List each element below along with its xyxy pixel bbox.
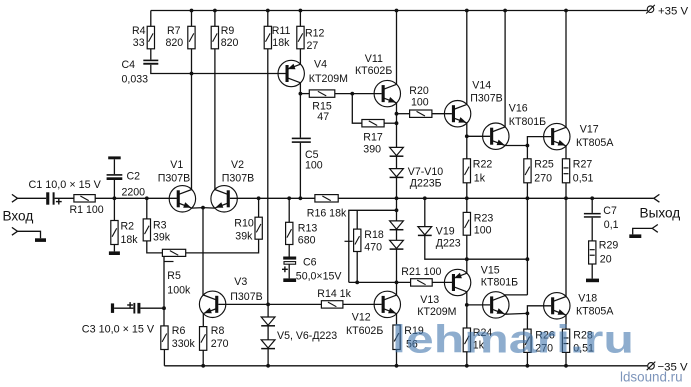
node R24 rail: [465, 364, 469, 368]
resistor R6: [161, 326, 168, 350]
resistor R2: [111, 221, 118, 245]
wire V1 emitter: [192, 207, 203, 210]
svg-text:R13: R13: [298, 223, 318, 235]
wire V7-V8: [396, 156, 398, 168]
capacitor C3 plate2: [137, 303, 140, 314]
wire V4 node to C5: [299, 94, 301, 138]
wire midline to R10: [258, 198, 260, 217]
transistor V4 КТ209М: [278, 60, 304, 86]
wire R6 to rail: [163, 350, 165, 366]
svg-text:V14: V14: [472, 79, 491, 91]
wire V16 emitter: [505, 145, 527, 147]
wire C3 to wiper line: [140, 307, 164, 309]
wire R26 to rail: [526, 352, 528, 365]
wire V3 emitter to R8: [202, 314, 204, 327]
transistor V18 КТ805А: [544, 293, 570, 319]
capacitor C4 plate2: [143, 63, 158, 65]
wire node to R3: [146, 198, 148, 219]
diode V19: [418, 227, 432, 236]
capacitor C1 plate-: [46, 192, 49, 204]
node R18 chain junction: [395, 208, 399, 212]
wire node to R24: [466, 305, 468, 328]
svg-text:R2: R2: [121, 221, 135, 233]
wire rail to R9: [214, 11, 216, 27]
transistor V16 КТ801Б: [483, 123, 509, 149]
transistor V15 КТ801Б: [483, 292, 509, 318]
node R25 node: [526, 196, 530, 200]
svg-text:R16 18k: R16 18k: [307, 208, 347, 220]
wire input shield: [18, 231, 41, 238]
svg-text:V13: V13: [420, 294, 439, 306]
svg-text:470: 470: [364, 241, 382, 253]
node chain bottom: [395, 281, 399, 285]
node V16 emitter node: [526, 144, 530, 148]
svg-text:820: 820: [221, 37, 239, 49]
capacitor C3 terminal bar: [111, 303, 114, 313]
svg-text:330k: 330k: [172, 338, 196, 350]
svg-text:V16: V16: [509, 103, 528, 115]
node C5 bottom: [299, 196, 303, 200]
transistor V1 П307В: [169, 186, 195, 212]
node rail R7: [190, 9, 194, 13]
wire rail to R11: [267, 11, 269, 27]
svg-text:КТ602Б: КТ602Б: [355, 65, 392, 77]
node rail V17: [564, 9, 568, 13]
ground R29 ground: [586, 279, 599, 283]
capacitor C7 plate1: [584, 213, 601, 215]
svg-text:50,0×15V: 50,0×15V: [296, 271, 343, 283]
node V19 top: [423, 196, 427, 200]
transistor V14 П307В: [444, 101, 470, 127]
svg-text:V3: V3: [234, 276, 247, 288]
svg-text:390: 390: [363, 144, 381, 156]
node rail R11: [266, 9, 270, 13]
svg-text:100: 100: [411, 97, 429, 109]
svg-text:39k: 39k: [235, 231, 253, 243]
node V13 emitter node: [465, 257, 469, 261]
connector terminal output hot: [654, 194, 660, 202]
wire V18 emitter to R28: [565, 315, 567, 329]
node R2 junction: [113, 196, 117, 200]
resistor R22: [463, 159, 470, 183]
svg-text:680: 680: [298, 235, 316, 247]
svg-text:П307В: П307В: [230, 291, 262, 303]
svg-text:R25: R25: [534, 159, 554, 171]
node R17 right: [395, 121, 399, 125]
resistor R25: [524, 159, 531, 183]
resistor R20: [410, 110, 432, 117]
svg-text:270: 270: [211, 338, 229, 350]
wire R4 to C4: [150, 49, 152, 60]
node C7 branch: [590, 196, 594, 200]
diode V6: [261, 340, 275, 349]
node emitters: [201, 206, 205, 210]
wire output to C7: [591, 198, 593, 213]
wire R14 to V12 base: [343, 303, 382, 305]
svg-text:V18: V18: [578, 293, 597, 305]
resistor R15: [309, 90, 335, 97]
wire node to R20: [397, 113, 410, 115]
wire R1 to V1 base: [95, 197, 177, 199]
svg-text:R3: R3: [153, 219, 167, 231]
wire C1 to R1: [55, 197, 74, 199]
wire V2 emitter: [203, 207, 215, 210]
svg-text:V15: V15: [481, 264, 500, 276]
svg-text:КТ209М: КТ209М: [309, 73, 348, 85]
wire node to R2: [113, 198, 115, 220]
wire node to R25: [526, 146, 528, 159]
svg-text:20: 20: [600, 254, 612, 266]
svg-text:ldsound.ru: ldsound.ru: [620, 370, 683, 385]
terminal +35V: [646, 5, 655, 14]
svg-text:100: 100: [305, 160, 323, 172]
wire node to R26: [526, 313, 528, 329]
node V6 rail: [266, 364, 270, 368]
potentiometer R5 wiper tick: [164, 261, 174, 263]
svg-text:С1 10,0 × 15 V: С1 10,0 × 15 V: [29, 179, 102, 191]
wire R17 left leg: [352, 94, 362, 124]
wire node to V15 base: [467, 304, 490, 306]
transistor V2 П307В: [211, 186, 237, 212]
svg-text:R14 1k: R14 1k: [317, 288, 351, 300]
wire R27 to midline: [565, 183, 567, 199]
resistor R11: [264, 26, 271, 49]
resistor R28: [562, 329, 569, 352]
resistor R3: [143, 219, 150, 241]
resistor R17: [362, 120, 384, 127]
svg-text:R20: R20: [409, 85, 429, 97]
svg-text:V1: V1: [170, 159, 183, 171]
capacitor C2 plate2: [107, 177, 123, 180]
wire output node down V15 collector line: [526, 198, 528, 295]
svg-text:V19: V19: [436, 226, 455, 238]
wire R11 to V3 base node: [267, 49, 269, 305]
svg-text:lehmari.ru: lehmari.ru: [392, 319, 634, 362]
node C3 junction: [162, 306, 166, 310]
wire V19 to V13 node: [425, 235, 467, 259]
svg-text:V4: V4: [314, 58, 327, 70]
ground output shield ground: [629, 234, 641, 238]
resistor R7: [188, 26, 195, 49]
wire R29 to ground: [591, 264, 593, 279]
transistor V13 КТ209М: [444, 269, 470, 295]
transistor V3 П307В: [199, 291, 225, 317]
node V14 emitter node: [465, 134, 469, 138]
svg-text:R9: R9: [221, 25, 235, 37]
svg-text:П307В: П307В: [222, 172, 254, 184]
diode V9: [390, 221, 404, 230]
svg-text:Выход: Выход: [640, 206, 681, 221]
wire R25 to midline: [526, 183, 528, 199]
node R28 rail: [564, 364, 568, 368]
node V15 emitter node: [526, 312, 530, 316]
svg-text:0,1: 0,1: [604, 219, 619, 231]
wire R2 to ground: [113, 245, 115, 252]
ground input shield ground: [35, 238, 46, 242]
wire R16 to output: [338, 197, 654, 199]
wire R22 to midline: [466, 183, 468, 199]
svg-text:27: 27: [307, 40, 319, 52]
plus sign C1 polarity: [56, 199, 62, 205]
wire V13 collector down: [466, 292, 468, 305]
wire R15 to V11 base: [335, 93, 382, 95]
wire -35V bottom rail: [164, 365, 647, 367]
wire node to R15: [300, 93, 309, 95]
resistor R9: [211, 26, 218, 49]
capacitor C2 terminal bar: [108, 156, 121, 159]
ground C6 ground: [283, 278, 296, 282]
capacitor C1 plate+: [53, 192, 55, 204]
resistor R18: [354, 229, 361, 251]
svg-text:V12: V12: [352, 312, 371, 324]
wire V12 emitter to R19: [396, 314, 398, 325]
wire C3 terminal: [114, 307, 133, 309]
connector terminal output shield: [652, 225, 658, 233]
svg-text:C6: C6: [303, 257, 317, 269]
resistor R16: [315, 195, 338, 202]
node V13 line T: [526, 257, 530, 261]
node V3 base node: [266, 303, 270, 307]
node R10 top: [257, 196, 261, 200]
resistor R8: [200, 327, 207, 351]
svg-text:100: 100: [474, 225, 492, 237]
wire R9 to V2 collector: [214, 49, 216, 190]
svg-text:R7: R7: [167, 25, 181, 37]
wire C2 terminal to plates: [113, 159, 115, 174]
wire node to R22: [466, 136, 468, 159]
svg-text:C7: C7: [603, 205, 617, 217]
wire output shield: [633, 228, 653, 234]
node rail R12: [299, 9, 303, 13]
capacitor C6 plate-: [284, 262, 296, 265]
terminal -35V: [647, 362, 656, 371]
wire V15 emitter: [505, 312, 527, 315]
node rail V11: [395, 9, 399, 13]
wire C2 to node: [113, 180, 115, 198]
resistor R26: [524, 329, 531, 352]
wire V14 collector to rail: [466, 11, 468, 105]
svg-text:П307В: П307В: [470, 93, 502, 105]
plus sign C6 polarity: [282, 266, 288, 272]
svg-text:КТ602Б: КТ602Б: [346, 325, 383, 337]
wire V17 collector to rail: [565, 11, 567, 128]
wire rail to R7: [191, 11, 193, 27]
svg-text:КТ801Б: КТ801Б: [509, 116, 546, 128]
wire R21 to V13 base: [432, 281, 452, 283]
wire R20 to V14 base: [432, 113, 452, 115]
svg-text:Д223Б: Д223Б: [410, 178, 442, 190]
wire V3 base: [218, 303, 268, 305]
wire midline to R13: [288, 198, 290, 222]
wire C6 to ground: [288, 264, 290, 278]
capacitor C7 plate2: [584, 216, 601, 218]
svg-text:R5: R5: [167, 270, 181, 282]
svg-text:0,51: 0,51: [573, 173, 594, 185]
svg-text:П307В: П307В: [158, 172, 190, 184]
wire V2 base to R16: [230, 197, 315, 199]
node R3 junction: [145, 196, 149, 200]
svg-text:18k: 18k: [272, 37, 290, 49]
resistor R13: [286, 222, 293, 244]
svg-text:R11: R11: [272, 25, 291, 37]
wire R8 to rail: [202, 350, 204, 366]
node rail R9: [213, 9, 217, 13]
capacitor C4 plate1: [143, 60, 158, 62]
ground R2 ground: [109, 251, 120, 255]
wire R3 to R5 left: [147, 241, 163, 253]
svg-text:КТ801Б: КТ801Б: [481, 276, 518, 288]
wire V12 collector: [396, 282, 398, 295]
svg-text:1k: 1k: [474, 173, 486, 185]
svg-text:R8: R8: [211, 325, 225, 337]
svg-text:V5, V6-Д223: V5, V6-Д223: [277, 330, 337, 342]
wire R28 to rail: [565, 352, 567, 365]
svg-text:+35 V: +35 V: [658, 5, 688, 17]
wire base node to V5: [267, 304, 269, 317]
wire C7 to R29: [591, 218, 593, 241]
wire V10 to lower node: [396, 249, 398, 282]
wire V13 node to V15 collector line: [467, 258, 528, 260]
resistor R12: [297, 26, 304, 49]
resistor R14: [321, 301, 343, 308]
svg-text:R23: R23: [474, 213, 494, 225]
resistor R4: [147, 26, 154, 49]
svg-text:КТ209М: КТ209М: [417, 306, 456, 318]
svg-text:R4: R4: [132, 25, 146, 37]
svg-text:КТ805А: КТ805А: [576, 306, 614, 318]
wire V17 emitter to R27: [565, 146, 567, 159]
svg-text:R22: R22: [473, 159, 493, 171]
wire V14 emitter down: [466, 123, 468, 136]
svg-text:R21 100: R21 100: [401, 266, 441, 278]
wire node to V16 base: [467, 135, 490, 137]
wire V16 collector to rail: [504, 11, 506, 127]
wire V8 to midline: [396, 177, 398, 198]
node chain midline: [395, 196, 399, 200]
wire +35V top rail: [151, 10, 647, 12]
transistor V17 КТ805А: [544, 123, 570, 149]
plus sign C3 polarity: [127, 302, 133, 308]
node V4 collector/R15/C5: [299, 92, 303, 96]
wire R17 to emitter line: [384, 122, 396, 124]
wire R13 to C6: [288, 245, 290, 257]
connector terminal input hot: [12, 194, 18, 202]
transistor V11 КТ602Б: [374, 80, 400, 106]
svg-text:КТ805А: КТ805А: [576, 137, 614, 149]
wire lower bias node: [349, 281, 411, 283]
diode V10: [390, 240, 404, 249]
connector terminal input shield: [12, 227, 18, 235]
node R20 branch: [395, 112, 399, 116]
diode V5: [261, 317, 275, 326]
resistor R29: [589, 241, 596, 264]
wire V15 collector: [505, 294, 528, 296]
node V13 collector node: [465, 303, 469, 307]
svg-text:820: 820: [166, 37, 184, 49]
svg-text:R6: R6: [172, 325, 186, 337]
wire R18 up: [356, 210, 358, 229]
wire V11 collector to rail: [396, 11, 398, 85]
wire R5 wiper down: [163, 257, 165, 326]
wire midline to R23: [466, 198, 468, 212]
wire V18 collector to output: [565, 198, 567, 296]
svg-text:0,033: 0,033: [122, 73, 149, 85]
wire C4 to V4 base: [151, 65, 287, 74]
wire rail to R4: [150, 11, 152, 27]
resistor R23: [463, 212, 470, 235]
capacitor C2 plate1: [107, 174, 123, 176]
wire base node to R14: [268, 303, 321, 305]
wire R7 to V1 collector: [191, 49, 193, 190]
node R17 branch: [350, 92, 354, 96]
node R18 bottom: [355, 281, 359, 285]
node R26 rail: [526, 364, 530, 368]
wire rail to R12: [299, 11, 301, 27]
node rail V16: [503, 9, 507, 13]
svg-text:R27: R27: [573, 159, 593, 171]
svg-text:Д223: Д223: [436, 238, 461, 250]
node C4/V1 collector junction: [190, 72, 194, 76]
svg-text:18k: 18k: [121, 234, 139, 246]
resistor R21: [411, 279, 433, 286]
wire C5 to midline: [299, 143, 301, 198]
node R13 top: [287, 196, 291, 200]
resistor R19: [393, 325, 400, 350]
wire midline to V9: [396, 198, 398, 221]
resistor R10: [255, 217, 262, 239]
wire jog to V17 base: [527, 137, 551, 146]
svg-text:V2: V2: [231, 159, 244, 171]
svg-text:100k: 100k: [167, 285, 191, 297]
wire R23 to V13 emitter node: [466, 235, 468, 273]
node R27/V18 collector: [564, 196, 568, 200]
svg-text:Вход: Вход: [3, 209, 34, 224]
svg-text:С3 10,0 × 15 V: С3 10,0 × 15 V: [82, 324, 155, 336]
wire V5-V6: [267, 326, 269, 340]
wire midline to V19: [424, 198, 426, 226]
resistor R24: [463, 328, 470, 352]
wire V9-V10: [396, 230, 398, 241]
svg-text:39k: 39k: [153, 232, 171, 244]
wire R18 down: [356, 252, 358, 283]
trimmer R18 wiper tick: [345, 240, 353, 242]
wire R19 to rail: [396, 350, 398, 366]
node rail V14: [465, 9, 469, 13]
capacitor C5 plate1: [292, 138, 311, 140]
wire R24 to rail: [466, 352, 468, 366]
svg-text:R18: R18: [364, 229, 384, 241]
svg-text:C2: C2: [127, 171, 141, 183]
wire jog to V18 base: [527, 306, 551, 314]
svg-text:V11: V11: [365, 53, 383, 65]
node R8 rail: [201, 364, 205, 368]
wire V6 to rail: [267, 349, 269, 366]
wire R18 top rail: [349, 210, 397, 282]
svg-text:33: 33: [133, 37, 145, 49]
svg-text:R10: R10: [234, 218, 254, 230]
svg-text:R17: R17: [363, 132, 383, 144]
resistor R5: [162, 249, 185, 256]
svg-text:47: 47: [317, 111, 329, 123]
wire R12 to V4 emitter: [299, 49, 301, 64]
wire tail down to V3: [202, 208, 204, 296]
capacitor C5 plate2: [292, 141, 311, 143]
svg-text:R12: R12: [305, 27, 325, 39]
svg-text:270: 270: [534, 173, 552, 185]
capacitor C3 plate1: [133, 303, 135, 314]
svg-text:R1 100: R1 100: [70, 204, 104, 216]
diode V8: [390, 169, 404, 178]
